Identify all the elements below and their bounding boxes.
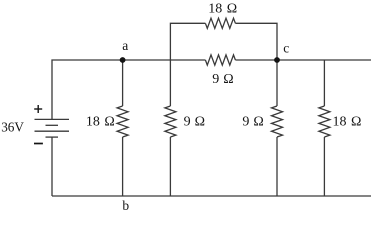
battery plus sign <box>34 105 42 113</box>
wire: junction on main rail down to R4 top lead <box>169 60 171 106</box>
node a junction dot <box>120 57 126 63</box>
svg-text:18 Ω: 18 Ω <box>208 2 237 17</box>
svg-text:c: c <box>283 40 289 55</box>
wire: battery negative terminal down to bottom rail <box>51 137 53 196</box>
resistor R2 9 ohm (middle branch a-c) <box>205 55 235 65</box>
wire: R5 bottom lead to bottom rail <box>276 137 278 196</box>
battery B1 plates (36V source) <box>35 119 70 137</box>
resistor R3 18 ohm (vertical under node a) <box>117 106 128 137</box>
svg-text:18 Ω: 18 Ω <box>86 114 115 129</box>
wire: battery positive terminal up and across to node a <box>52 60 123 119</box>
node c junction dot <box>274 57 280 63</box>
wire: R1 right lead down to node c <box>235 23 277 60</box>
resistor R6 18 ohm (right vertical) <box>319 106 330 137</box>
wire: node a to left lead of resistor R2 <box>123 59 206 61</box>
svg-text:9 Ω: 9 Ω <box>242 114 263 129</box>
wire: R6 bottom lead to bottom rail <box>323 137 325 196</box>
wire: node c down to R5 top lead <box>276 60 278 106</box>
resistor R4 9 ohm (second vertical) <box>165 106 176 137</box>
resistor R1 18 ohm (top parallel branch) <box>205 18 235 28</box>
svg-text:36V: 36V <box>1 120 24 135</box>
wire: top rail down to R6 top lead <box>323 60 325 106</box>
wire: right lead of resistor R2 to node c <box>235 59 277 61</box>
wire: node a down to R3 top lead <box>122 60 124 106</box>
svg-text:9 Ω: 9 Ω <box>212 72 233 87</box>
svg-text:18 Ω: 18 Ω <box>333 114 362 129</box>
svg-text:a: a <box>122 38 128 53</box>
resistor R5 9 ohm (vertical under node c) <box>272 106 283 137</box>
wire: R4 bottom lead to bottom rail <box>169 137 171 196</box>
battery minus sign <box>34 143 43 145</box>
wire: upper branch left riser from junction to R1 left lead <box>170 23 205 60</box>
wire: bottom rail (node b) <box>52 195 371 197</box>
svg-text:b: b <box>122 198 129 213</box>
svg-text:9 Ω: 9 Ω <box>184 114 205 129</box>
wire: node c to right terminal <box>277 59 371 61</box>
wire: R3 bottom lead to bottom rail <box>122 137 124 196</box>
